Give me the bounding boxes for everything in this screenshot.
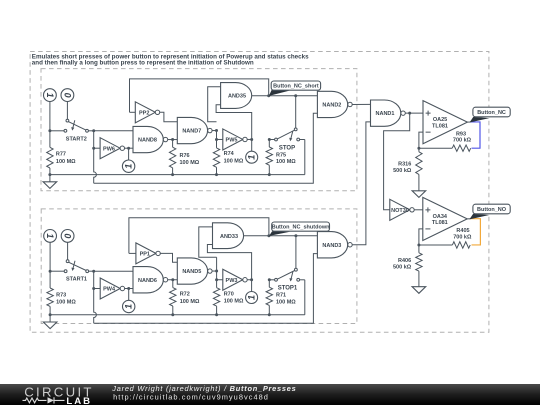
svg-text:100 MΩ: 100 MΩ: [180, 160, 200, 166]
label Button_NO: [469, 204, 510, 219]
wire: [247, 138, 252, 140]
svg-text:AND35: AND35: [228, 94, 246, 100]
wire: [216, 271, 218, 280]
svg-text:TL081: TL081: [432, 220, 448, 226]
buffer PW3: [217, 269, 248, 290]
svg-text:STOP1: STOP1: [278, 286, 298, 292]
svg-text:1: 1: [124, 164, 134, 169]
wire (NAND5 out to AND33 upper input): [199, 227, 217, 257]
svg-text:R73: R73: [56, 292, 66, 298]
node: [48, 129, 51, 132]
wire (feedback AND33 to PP1): [129, 218, 269, 254]
CircuitLab logo text LAB: [66, 396, 92, 405]
wire (OA25 - input): [419, 132, 423, 148]
svg-text:OA34: OA34: [433, 214, 448, 220]
NAND gate NAND3: [317, 232, 352, 258]
node: [92, 270, 95, 273]
resistor R316: [393, 148, 422, 191]
svg-text:500 kΩ: 500 kΩ: [393, 265, 412, 271]
svg-text:http://circuitlab.com/cuv9myu8: http://circuitlab.com/cuv9myu8vc48d: [113, 393, 269, 402]
node: [294, 94, 297, 97]
svg-text:100 MΩ: 100 MΩ: [224, 299, 244, 305]
digital source 1 (top V1): [44, 89, 57, 102]
node: [250, 278, 253, 281]
svg-text:PP1: PP1: [140, 252, 150, 258]
wire: [244, 235, 318, 237]
op-amp OA34 TL081: [423, 197, 467, 240]
ground: [412, 287, 426, 294]
svg-text:Button_NO: Button_NO: [477, 207, 507, 213]
svg-text:R76: R76: [180, 153, 190, 159]
wire with hop: [94, 131, 97, 184]
resistor R70: [213, 280, 244, 315]
svg-text:NAND1: NAND1: [376, 111, 395, 117]
CircuitLab logo resistor-diode glyph: [23, 397, 65, 403]
wire: [467, 121, 470, 123]
svg-text:AND33: AND33: [220, 234, 238, 240]
node: [48, 173, 51, 176]
node: [215, 138, 218, 141]
node: [268, 313, 271, 316]
node: [92, 129, 95, 132]
wire: [125, 288, 133, 290]
wire (PP2 to NAND7): [160, 112, 178, 121]
svg-text:NAND6: NAND6: [138, 278, 157, 284]
svg-text:1: 1: [247, 155, 257, 160]
buffer PW6: [94, 138, 125, 159]
wire (OA34 - input): [419, 229, 423, 245]
digital source 1 (PW5): [246, 139, 258, 163]
digital source 0 (top V0): [61, 89, 74, 102]
svg-text:NOT30: NOT30: [391, 208, 409, 214]
wire: [216, 131, 218, 140]
wire: [49, 242, 51, 288]
wire with hop: [94, 271, 97, 323]
resistor R76: [169, 140, 199, 175]
svg-text:1: 1: [247, 295, 257, 300]
wire (NAND7 out to AND35 upper input): [208, 87, 221, 122]
svg-text:PW3: PW3: [226, 278, 238, 284]
inverter PP2: [130, 102, 160, 123]
svg-text:PW5: PW5: [226, 138, 238, 144]
node: [171, 138, 174, 141]
wire (blue net Button_NC): [470, 122, 480, 148]
ground: [43, 175, 57, 189]
svg-text:100 MΩ: 100 MΩ: [56, 300, 76, 306]
node: [417, 243, 420, 246]
svg-text:NAND2: NAND2: [322, 103, 341, 109]
svg-text:NAND7: NAND7: [182, 129, 201, 135]
svg-text:START2: START2: [66, 136, 87, 142]
wire: [212, 130, 216, 132]
resistor R74: [213, 139, 244, 174]
wire: [168, 279, 178, 281]
wire (PP1 to NAND5): [160, 253, 177, 262]
inverter PP1: [129, 243, 160, 264]
inverter NOT30: [390, 199, 414, 220]
digital source 1 (PW4): [123, 289, 135, 313]
svg-text:100 MΩ: 100 MΩ: [224, 158, 244, 164]
svg-text:500 kΩ: 500 kΩ: [393, 168, 412, 174]
node: [268, 278, 271, 281]
resistor R71: [266, 280, 296, 315]
node: [49, 270, 52, 273]
svg-text:100 MΩ: 100 MΩ: [276, 299, 296, 305]
svg-text:R75: R75: [276, 152, 286, 158]
node: [250, 138, 253, 141]
switch STOP1: [269, 268, 305, 314]
wire: [94, 270, 133, 272]
NAND gate NAND5: [177, 258, 212, 284]
NAND gate NAND6: [133, 267, 168, 293]
node: [215, 270, 218, 273]
NAND gate NAND7: [177, 117, 212, 143]
node: [215, 313, 218, 316]
footer bar: [0, 384, 540, 405]
digital source 1 (PW3): [246, 280, 258, 304]
svg-text:Button_NC_short: Button_NC_short: [273, 84, 319, 90]
label Button_NC: [470, 107, 511, 122]
ground rail (top): [50, 174, 305, 176]
AND gate AND33: [213, 223, 244, 249]
node: [215, 129, 218, 132]
svg-text:0: 0: [62, 93, 72, 98]
node: [267, 234, 270, 237]
wire: [419, 147, 452, 149]
node: [267, 94, 270, 97]
node: [92, 287, 95, 290]
wire (NAND1 out to NOT30): [384, 113, 410, 210]
footer url line: [113, 393, 269, 402]
svg-text:R70: R70: [224, 292, 234, 298]
digital source 0 (bottom V0): [61, 230, 74, 243]
node: [171, 173, 174, 176]
svg-text:and then finally a long button: and then finally a long button press to …: [32, 60, 254, 67]
wire: [295, 96, 297, 128]
resistor R93: [452, 131, 471, 151]
node: [49, 313, 52, 316]
ground: [43, 315, 57, 329]
wire: [125, 147, 134, 149]
wire (lower rail, top): [94, 113, 318, 183]
node: [417, 147, 420, 150]
wire: [414, 209, 423, 211]
svg-text:Button_NC: Button_NC: [477, 110, 506, 116]
node: [268, 173, 271, 176]
wire: [212, 270, 217, 272]
node: [92, 147, 95, 150]
svg-text:R405: R405: [456, 228, 469, 234]
svg-text:R77: R77: [56, 152, 66, 158]
svg-text:STOP: STOP: [279, 145, 295, 151]
svg-text:START1: START1: [66, 277, 87, 283]
svg-text:OA25: OA25: [433, 117, 447, 123]
resistor R77: [47, 147, 76, 174]
node: [268, 138, 271, 141]
switch START2: [50, 119, 94, 142]
label Button_NC_short: [269, 81, 321, 96]
svg-text:1: 1: [124, 304, 134, 309]
svg-text:PP2: PP2: [139, 110, 149, 116]
NAND gate NAND8: [133, 126, 168, 152]
svg-text:PW6: PW6: [103, 146, 115, 152]
wire: [467, 218, 470, 220]
resistor R405: [452, 228, 472, 248]
svg-text:NAND3: NAND3: [322, 243, 341, 249]
wire (lower rail, bottom): [94, 254, 318, 324]
NAND gate NAND1: [371, 100, 406, 126]
svg-text:TL081: TL081: [432, 123, 448, 129]
wire: [49, 102, 51, 148]
svg-text:Jared Wright (jaredkwright) /: Jared Wright (jaredkwright) / Button_Pre…: [111, 384, 296, 393]
footer author line: [111, 384, 296, 393]
svg-text:Button_NC_shutdown: Button_NC_shutdown: [272, 225, 330, 231]
svg-text:100 MΩ: 100 MΩ: [180, 299, 200, 305]
svg-text:1: 1: [45, 233, 55, 238]
svg-text:NAND5: NAND5: [182, 269, 201, 275]
svg-text:LAB: LAB: [66, 396, 92, 405]
svg-text:1: 1: [45, 93, 55, 98]
wire: [252, 95, 318, 97]
wire: [295, 236, 297, 269]
label Button_NC_shutdown: [269, 222, 330, 236]
digital source 1 (bottom V1): [44, 230, 57, 243]
svg-text:R93: R93: [456, 131, 466, 137]
wire (PW3 to AND33 lower input): [207, 245, 251, 280]
wire: [352, 103, 370, 105]
wire: [247, 279, 251, 281]
svg-text:R74: R74: [224, 151, 235, 157]
wire: [405, 112, 423, 114]
node: [408, 112, 411, 115]
svg-text:R316: R316: [398, 161, 411, 167]
resistor R73: [47, 288, 76, 315]
resistor R75: [266, 140, 296, 175]
svg-text:R72: R72: [180, 292, 190, 298]
svg-text:100 MΩ: 100 MΩ: [276, 159, 296, 165]
node: [171, 313, 174, 316]
op-amp OA25 TL081: [423, 101, 467, 144]
sub-circuit box 2 (dashed): [41, 209, 357, 324]
svg-text:R71: R71: [276, 293, 286, 299]
ground: [412, 191, 426, 198]
ground rail (bottom): [50, 314, 305, 316]
digital source 1 (PW6): [122, 148, 134, 172]
wire (NAND3 out to NAND1 input): [352, 122, 370, 245]
svg-text:700 kΩ: 700 kΩ: [453, 234, 472, 240]
svg-text:R406: R406: [398, 258, 411, 264]
svg-text:100 MΩ: 100 MΩ: [56, 159, 76, 165]
NAND gate NAND2: [317, 91, 352, 117]
wire: [67, 242, 69, 259]
wire: [66, 102, 68, 120]
wire: [94, 130, 133, 132]
buffer PW5: [217, 129, 248, 150]
svg-text:PW4: PW4: [103, 287, 116, 293]
wire (feedback AND35 to PP2): [130, 79, 269, 112]
wire (orange net Button_NO): [470, 219, 480, 245]
AND gate AND35: [221, 83, 252, 109]
node: [171, 278, 174, 281]
svg-text:NAND8: NAND8: [138, 138, 157, 144]
sub-circuit box 1 (dashed): [41, 69, 357, 191]
switch STOP: [269, 128, 305, 175]
node: [215, 278, 218, 281]
node: [127, 287, 130, 290]
buffer PW4: [94, 278, 125, 299]
switch START1: [50, 260, 94, 283]
wire: [168, 139, 178, 141]
annotation text: [32, 53, 309, 66]
annotation box (outer dashed): [30, 52, 489, 333]
node: [294, 234, 297, 237]
node: [127, 147, 130, 150]
node: [215, 173, 218, 176]
wire: [419, 244, 453, 246]
CircuitLab logo text CIRCUIT: [24, 385, 94, 400]
wire (PW5 to AND35 lower input): [216, 105, 252, 140]
svg-text:0: 0: [63, 233, 73, 238]
svg-text:700 kΩ: 700 kΩ: [453, 138, 472, 144]
wire: [216, 257, 218, 271]
resistor R406: [393, 245, 422, 287]
resistor R72: [170, 280, 200, 315]
